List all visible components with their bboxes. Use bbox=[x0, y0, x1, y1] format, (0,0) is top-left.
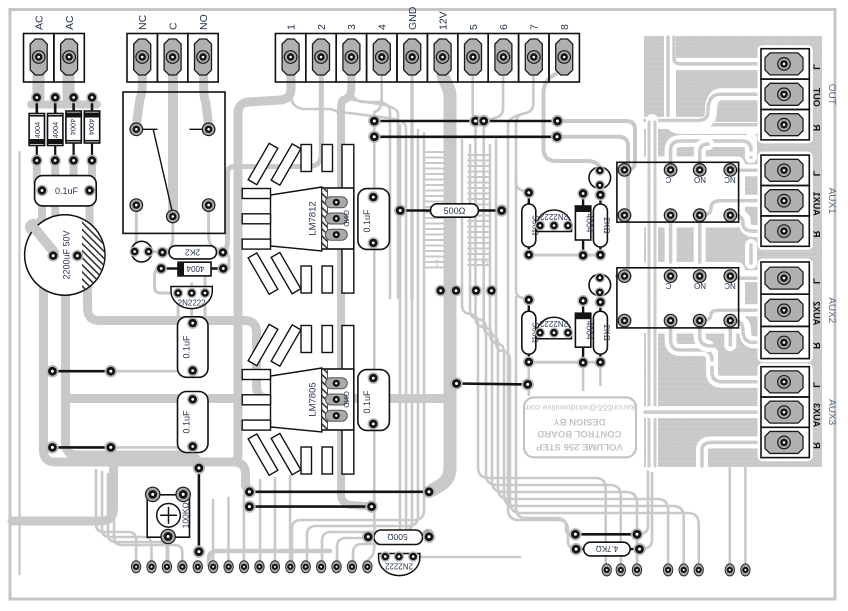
wire K2 top pads into plane bbox=[671, 141, 751, 166]
connector AUX3 cell L bbox=[764, 369, 807, 394]
svg-text:AUX1: AUX1 bbox=[812, 192, 822, 216]
terminal J3 pin 6 bbox=[488, 34, 518, 83]
svg-text:7: 7 bbox=[529, 24, 541, 30]
wire plane channel K2 to AUX1 cells bbox=[735, 164, 758, 176]
svg-text:0.1uF: 0.1uF bbox=[362, 390, 372, 414]
svg-text:OUT: OUT bbox=[812, 87, 822, 107]
wire terminal 4 to jumper W1 left pad bbox=[374, 76, 381, 137]
wire W1 right pad to K2 bbox=[558, 121, 636, 170]
svg-text:4: 4 bbox=[377, 24, 389, 30]
connector OUT bbox=[758, 45, 813, 143]
wire ch2 bottom stubs bbox=[527, 362, 530, 395]
wire C5 internal wedge bbox=[33, 227, 53, 251]
resistor 2K channel 3 bbox=[599, 302, 601, 362]
svg-text:AUX2: AUX2 bbox=[826, 297, 837, 324]
svg-text:6: 6 bbox=[498, 24, 510, 30]
wire 4.7K right routes bbox=[640, 470, 653, 549]
svg-text:NO: NO bbox=[694, 175, 706, 184]
diode D5 4004 bbox=[161, 267, 223, 269]
wire feed 500ohm ch2 bbox=[516, 170, 529, 300]
svg-text:4004: 4004 bbox=[51, 122, 60, 138]
svg-text:2KΩ: 2KΩ bbox=[602, 217, 612, 234]
heatsink for LM7812 bbox=[242, 143, 354, 294]
plane white cutout around K2 bbox=[639, 157, 745, 228]
svg-text:12V: 12V bbox=[437, 11, 449, 30]
svg-text:OUT: OUT bbox=[826, 84, 837, 105]
capacitor C5 2200uF 50V bbox=[25, 215, 105, 295]
terminal J3 pin 1 bbox=[275, 34, 305, 83]
wire jumper W6 bbox=[249, 490, 429, 493]
connector AUX1 cell R bbox=[764, 218, 807, 243]
svg-text:AC: AC bbox=[64, 15, 76, 30]
svg-text:4004: 4004 bbox=[69, 119, 78, 135]
connector AUX3 bbox=[758, 363, 813, 461]
capacitor C2 0.1uF bbox=[178, 317, 209, 378]
bottom pad row bbox=[131, 561, 140, 573]
svg-text:R: R bbox=[811, 342, 822, 349]
capacitor 0.1uF beside LM7812 bbox=[358, 189, 390, 250]
regulator LM7812 pins bbox=[325, 197, 347, 208]
wire terminal 1 branch arc bbox=[291, 76, 341, 120]
diode 4004 channel 3 bbox=[582, 301, 584, 363]
svg-text:4004: 4004 bbox=[87, 119, 96, 135]
plane streak texture bbox=[644, 36, 822, 467]
wire terminal 8 to LED2 bbox=[544, 74, 600, 169]
wire jumper W5 vertical bbox=[198, 468, 201, 552]
connector AUX3 cell AUX3 bbox=[764, 400, 807, 425]
svg-text:2K2: 2K2 bbox=[185, 247, 200, 257]
svg-text:500Ω: 500Ω bbox=[444, 206, 466, 216]
svg-text:4004: 4004 bbox=[186, 264, 204, 273]
resistor 2K channel 2 bbox=[599, 195, 601, 255]
svg-text:NO: NO bbox=[198, 14, 210, 30]
terminal J3 pin 3 bbox=[336, 34, 366, 83]
svg-text:GND: GND bbox=[342, 391, 351, 408]
wire D2 to C5 cap bbox=[53, 158, 55, 251]
capacitor C3 0.1uF bbox=[178, 392, 209, 453]
regulator LM7812 bbox=[322, 188, 354, 249]
wire to jumper W9 bbox=[516, 297, 575, 534]
svg-text:0.1uF: 0.1uF bbox=[182, 335, 192, 359]
silk text block bbox=[524, 397, 636, 457]
wire black-jumper gray links bbox=[111, 370, 188, 373]
wire channel pad links bbox=[529, 254, 601, 257]
wire bundle fanout to bottom right pads bbox=[462, 288, 606, 563]
svg-text:38: 38 bbox=[481, 258, 491, 268]
wire bottom stubs bbox=[212, 500, 215, 562]
wire terminal 6 down through W1 pad bbox=[484, 76, 503, 288]
wire D4 stub bbox=[88, 158, 96, 183]
trimmer RV1 100K bbox=[147, 495, 189, 537]
svg-text:2200uF 50V: 2200uF 50V bbox=[62, 230, 72, 279]
wire bundle verticals bbox=[399, 125, 402, 298]
wire Q1 pin stubs bbox=[190, 284, 193, 291]
wire jumper W2 top bbox=[374, 136, 557, 139]
regulator LM7805 pins bbox=[325, 378, 347, 389]
wire plane channel to OUT mid bbox=[645, 94, 758, 123]
wire jumper W4 bbox=[52, 446, 110, 449]
svg-text:LM7805: LM7805 bbox=[308, 382, 319, 416]
svg-text:NO: NO bbox=[694, 281, 706, 290]
svg-text:4.7KΩ: 4.7KΩ bbox=[596, 544, 618, 553]
svg-text:kanon555@windowslive.com: kanon555@windowslive.com bbox=[524, 403, 635, 413]
wire branch to C3 top pad bbox=[70, 394, 256, 403]
wire bottom-left corner trace bbox=[12, 466, 114, 521]
connector OUT cell L bbox=[764, 51, 807, 76]
wire 12V fat trace bbox=[433, 76, 451, 490]
plane white cutout around K3 bbox=[639, 262, 745, 334]
wire terminal 5 down through W1 pad bbox=[473, 76, 476, 288]
capacitor 0.1uF beside LM7805 bbox=[358, 370, 390, 431]
connector AUX2 cell AUX2 bbox=[764, 297, 807, 324]
terminal J2 pin NC bbox=[127, 34, 157, 83]
svg-text:2: 2 bbox=[316, 24, 328, 30]
svg-text:AUX1: AUX1 bbox=[826, 188, 837, 215]
LED LED3 channel bbox=[589, 274, 611, 296]
wire terminal 2 long route to R1 bbox=[223, 76, 322, 252]
wire C5 negative rail down-left bbox=[44, 257, 250, 490]
svg-text:NC: NC bbox=[724, 281, 736, 290]
resistor R6 500ohm bottom bbox=[368, 536, 429, 538]
wire 12V rail S-path through C2 C3 pads bbox=[88, 262, 447, 399]
svg-text:AUX3: AUX3 bbox=[812, 403, 822, 427]
wire R1 to D5 link bbox=[223, 252, 229, 268]
svg-text:L: L bbox=[811, 382, 822, 388]
heatsink for LM7805 bbox=[242, 324, 354, 475]
wire jumper W9 bbox=[575, 533, 637, 536]
wire GND terminal down bbox=[410, 76, 413, 298]
wire plane channel K3 to AUX2 cells bbox=[735, 270, 758, 282]
transistor Q1 2N2222 bbox=[171, 287, 212, 309]
relay K2 bbox=[617, 162, 739, 222]
wire D5 to Q1 link bbox=[155, 269, 178, 294]
wire plane channel to OUT L bbox=[670, 37, 758, 128]
wire terminal 7 down to 500ohm ch1 bbox=[516, 76, 533, 193]
wire AC1 feed trace bbox=[33, 58, 45, 98]
connector AUX1 cell L bbox=[764, 158, 807, 183]
capacitor C1 0.1uF bbox=[35, 176, 97, 206]
connector AUX2 cell R bbox=[764, 329, 807, 356]
diode 4004 channel 2 bbox=[582, 194, 584, 256]
wire plane channels to AUX3 cells bbox=[712, 353, 758, 382]
resistor R7 4.7K bbox=[576, 548, 639, 550]
relay K1 bbox=[123, 92, 225, 233]
wire NC terminal to K1 bbox=[136, 58, 142, 125]
wire C1 right pad down bbox=[83, 193, 90, 249]
wire jumper W3 bbox=[52, 370, 110, 373]
svg-text:L: L bbox=[811, 64, 822, 70]
transistor 2N2222 channel 2 bbox=[537, 210, 572, 232]
connector AUX3 cell R bbox=[764, 430, 807, 455]
wire K1 coil stubs bbox=[135, 208, 137, 249]
LED LED1 bbox=[131, 241, 152, 262]
svg-text:C: C bbox=[665, 175, 671, 184]
wire bottom center horizontals bbox=[209, 551, 330, 565]
resistor 500ohm channel 2 bbox=[528, 193, 530, 255]
wire RV1 stubs bbox=[151, 496, 154, 510]
LED LED2 channel bbox=[589, 167, 611, 189]
connector AUX1 bbox=[758, 152, 813, 250]
wire bundle ladder texture right bbox=[468, 154, 490, 156]
svg-text:100KΩ: 100KΩ bbox=[181, 502, 191, 528]
svg-text:GND: GND bbox=[342, 210, 351, 227]
svg-text:0.1uF: 0.1uF bbox=[362, 209, 372, 233]
via pads row center bbox=[435, 285, 447, 297]
terminal J3 pin 5 bbox=[458, 34, 488, 83]
diode D2 4004 bbox=[54, 98, 57, 114]
wire jumper W1 top bbox=[374, 120, 557, 123]
ground plane right side bbox=[644, 36, 822, 467]
terminal J2 pin NO bbox=[188, 34, 218, 83]
wire K3 bottom pads into AUX3 feeds bbox=[671, 324, 712, 360]
svg-text:GND: GND bbox=[407, 6, 419, 30]
terminal J3 pin 4 bbox=[367, 34, 397, 83]
terminal J1 pin AC bbox=[24, 34, 54, 83]
diode D3 4004 bbox=[72, 98, 75, 112]
wire C1 left pad down bbox=[42, 193, 48, 252]
svg-text:L: L bbox=[811, 278, 822, 284]
svg-text:AC: AC bbox=[34, 15, 46, 30]
wire bottom-left nested returns bbox=[96, 470, 136, 562]
wire AC2 feed trace bbox=[63, 58, 75, 98]
svg-text:2N2222: 2N2222 bbox=[539, 319, 568, 328]
svg-text:R: R bbox=[811, 124, 822, 131]
terminal J3 pin 7 bbox=[519, 34, 549, 83]
resistor R1 2K2 bbox=[162, 251, 223, 253]
svg-text:DESIGN BY: DESIGN BY bbox=[553, 416, 606, 427]
svg-text:2KΩ: 2KΩ bbox=[602, 324, 612, 341]
wire plane inter-stack channels bbox=[745, 139, 757, 157]
svg-text:VOLUME 256 STEP: VOLUME 256 STEP bbox=[535, 441, 622, 452]
svg-text:C: C bbox=[167, 22, 179, 30]
svg-text:AUX2: AUX2 bbox=[812, 301, 822, 325]
wire into bundle bbox=[343, 98, 398, 298]
wire plane exits to bottom pads bbox=[728, 466, 731, 563]
wire W2 right pad to K3 bbox=[557, 137, 628, 276]
terminal J3 pin 2 bbox=[306, 34, 336, 83]
wire K2 bottom pads to K3 bbox=[665, 218, 677, 262]
wire C5 positive rail down bbox=[66, 257, 199, 464]
svg-text:2N2222: 2N2222 bbox=[384, 561, 413, 570]
diode D1 4004 bbox=[35, 98, 38, 114]
svg-text:AUX3: AUX3 bbox=[826, 399, 837, 426]
svg-text:0.1uF: 0.1uF bbox=[55, 186, 79, 196]
wire jumper W8 bbox=[457, 382, 528, 385]
terminal J3 pin GND bbox=[397, 34, 427, 83]
svg-text:4004: 4004 bbox=[33, 122, 42, 138]
wire terminal 3 long vertical behind heatsinks bbox=[341, 76, 368, 506]
svg-text:2N2222: 2N2222 bbox=[178, 299, 207, 308]
connector OUT cell R bbox=[764, 112, 807, 137]
wire C terminal to K1 common bbox=[168, 58, 178, 212]
svg-text:1: 1 bbox=[285, 24, 297, 30]
resistor 500ohm channel 3 bbox=[528, 300, 530, 362]
wire jumper W7 bbox=[249, 505, 371, 508]
wire terminal 1 long left vertical bbox=[232, 76, 291, 462]
svg-text:500Ω: 500Ω bbox=[387, 532, 408, 542]
wire bundle fanout to bottom pads bbox=[353, 298, 400, 562]
wire D3 to C1 bbox=[74, 158, 84, 190]
svg-text:2N2222: 2N2222 bbox=[539, 212, 568, 221]
connector AUX1 cell AUX1 bbox=[764, 188, 807, 213]
svg-text:LM7812: LM7812 bbox=[308, 201, 319, 235]
terminal J3 pin 8 bbox=[549, 34, 579, 83]
wire plane left-edge channel bbox=[646, 120, 658, 466]
svg-text:0.1uF: 0.1uF bbox=[182, 410, 192, 434]
connector AUX2 bbox=[758, 259, 813, 363]
diode D4 4004 bbox=[91, 98, 94, 112]
svg-text:8: 8 bbox=[559, 24, 571, 30]
svg-text:NC: NC bbox=[137, 14, 149, 30]
svg-text:CONTROL BOARD: CONTROL BOARD bbox=[537, 428, 621, 439]
wire D1 to C1 bbox=[37, 158, 48, 191]
wire NO terminal to K1 bbox=[204, 58, 209, 125]
svg-text:NC: NC bbox=[724, 175, 736, 184]
connector AUX2 cell L bbox=[764, 265, 807, 292]
svg-text:1: 1 bbox=[434, 258, 439, 268]
connector OUT cell OUT bbox=[764, 82, 807, 107]
resistor R2 500ohm bbox=[400, 209, 501, 212]
relay K1 switch symbol bbox=[143, 128, 157, 130]
svg-text:3: 3 bbox=[346, 24, 358, 30]
relay K3 bbox=[617, 268, 739, 328]
via pad isolated bbox=[422, 529, 434, 541]
terminal J2 pin C bbox=[157, 34, 187, 83]
svg-text:5: 5 bbox=[468, 24, 480, 30]
transistor Q4 2N2222 bottom bbox=[379, 554, 420, 576]
terminal J3 pin 12V bbox=[427, 34, 457, 83]
regulator LM7805 bbox=[322, 369, 354, 430]
wire terminal 3 branch arc bbox=[351, 88, 390, 298]
terminal J1 pin AC bbox=[54, 34, 84, 83]
svg-text:R: R bbox=[811, 442, 822, 449]
svg-text:L: L bbox=[811, 170, 822, 176]
wire LED1 to R1 link bbox=[149, 250, 162, 253]
transistor 2N2222 channel 3 bbox=[537, 317, 572, 339]
wire diode top bus bbox=[31, 101, 97, 109]
wire bundle ladder texture left bbox=[426, 151, 448, 153]
bottom right pad groups bbox=[602, 564, 611, 576]
svg-text:C: C bbox=[665, 281, 671, 290]
wire left edge thin trace bbox=[18, 152, 20, 574]
svg-text:R: R bbox=[811, 231, 822, 238]
